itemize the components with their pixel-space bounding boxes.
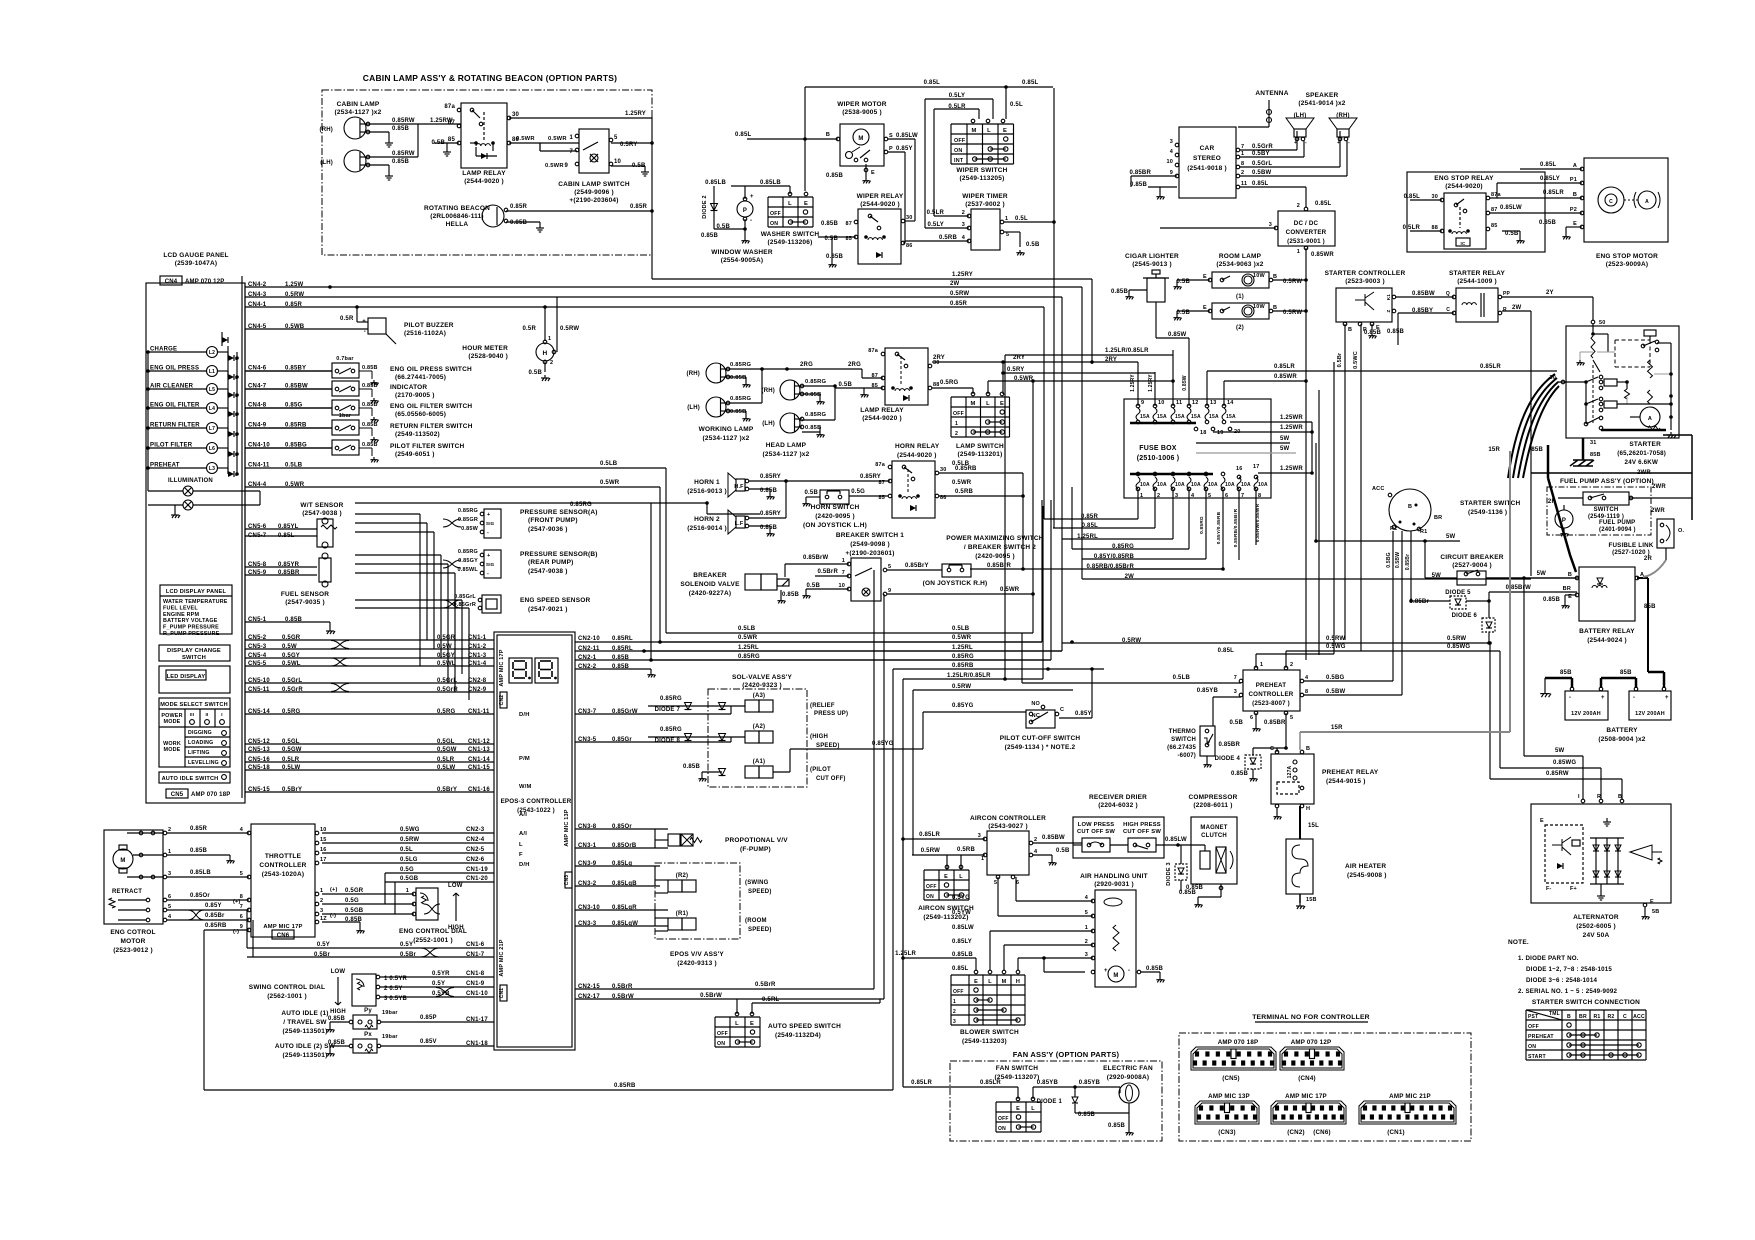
svg-text:CIGAR LIGHTER: CIGAR LIGHTER (1125, 253, 1179, 260)
fuse 10 15A (1153, 404, 1157, 408)
wire 0.85L top run (805, 86, 1053, 88)
svg-text:10: 10 (320, 827, 327, 833)
svg-text:2: 2 (320, 898, 323, 904)
svg-text:2: 2 (168, 827, 171, 833)
svg-text:10: 10 (1166, 159, 1173, 165)
svg-text:0.5LY: 0.5LY (928, 222, 944, 228)
svg-text:(2527-1020 ): (2527-1020 ) (1612, 549, 1650, 556)
charge diode (221, 332, 223, 346)
svg-text:1.25RY: 1.25RY (952, 272, 973, 278)
svg-text:5W: 5W (1555, 748, 1565, 754)
svg-text:2R: 2R (1644, 556, 1653, 562)
svg-text:AMP MIC 13P: AMP MIC 13P (1208, 1093, 1250, 1100)
fuse 4 10A (1187, 472, 1191, 476)
svg-text:(2554-9005A): (2554-9005A) (721, 257, 764, 264)
svg-text:-: - (750, 218, 752, 224)
svg-text:0.5WR: 0.5WR (952, 480, 972, 486)
svg-text:0.85B: 0.85B (392, 126, 409, 132)
svg-text:2WR: 2WR (1651, 508, 1665, 514)
svg-text:/ BREAKER SWITCH 2: / BREAKER SWITCH 2 (964, 544, 1036, 551)
svg-text:1: 1 (1140, 493, 1143, 499)
svg-text:HOUR METER: HOUR METER (462, 345, 508, 352)
svg-text:(65.05560-6005): (65.05560-6005) (395, 411, 446, 418)
svg-text:0.85LR: 0.85LR (911, 1080, 932, 1086)
svg-text:ENG SPEED SENSOR: ENG SPEED SENSOR (520, 597, 590, 604)
svg-text:P1: P1 (1570, 177, 1577, 183)
svg-text:0.5YR: 0.5YR (432, 971, 450, 977)
svg-text:0.85B: 0.85B (362, 365, 378, 371)
svg-text:0.5BY: 0.5BY (1252, 151, 1270, 157)
svg-text:Z: Z (1386, 309, 1391, 312)
svg-text:ON: ON (770, 221, 778, 227)
svg-text:1: 1 (1297, 249, 1300, 255)
svg-text:FUSIBLE LINK: FUSIBLE LINK (1608, 542, 1653, 549)
DC/DC converter 2531-9001 (1278, 211, 1335, 246)
svg-text:(2547-9021 ): (2547-9021 ) (528, 606, 568, 613)
svg-text:(2204-6032 ): (2204-6032 ) (1098, 802, 1138, 809)
svg-text:ON: ON (998, 1126, 1006, 1132)
svg-text:2: 2 (1241, 170, 1244, 176)
svg-text:HEAD LAMP: HEAD LAMP (766, 442, 807, 449)
svg-text:(2545-9008 ): (2545-9008 ) (1347, 872, 1387, 879)
wires 0.85BrR/0.5WR risers to CN2-15/17 (873, 570, 875, 989)
svg-text:1: 1 (953, 999, 956, 1005)
svg-text:1.25RL: 1.25RL (952, 645, 973, 651)
svg-text:0.85B: 0.85B (805, 392, 821, 398)
svg-text:0.85GR: 0.85GR (458, 517, 478, 523)
svg-text:10: 10 (1158, 400, 1165, 406)
svg-text:0.5WR: 0.5WR (1014, 376, 1034, 382)
svg-text:1.25RY: 1.25RY (1130, 374, 1136, 392)
svg-text:A: A (1573, 163, 1577, 169)
svg-text:0.5B: 0.5B (805, 490, 819, 496)
thick battery cable bundle to starter terminal 30 (1508, 374, 1555, 478)
svg-text:0.5Br: 0.5Br (314, 952, 330, 958)
svg-text:L1: L1 (209, 369, 215, 375)
svg-text:0.85B: 0.85B (362, 383, 378, 389)
svg-text:ELECTRIC FAN: ELECTRIC FAN (1103, 1065, 1153, 1072)
svg-text:0.5BrR: 0.5BrR (817, 569, 838, 575)
svg-text:C: C (1609, 199, 1613, 205)
svg-text:0.85B: 0.85B (730, 375, 746, 381)
svg-text:I: I (1578, 794, 1580, 800)
solenoid valve A3 relief press up (745, 700, 759, 712)
svg-text:L: L (1031, 1106, 1035, 1112)
svg-text:3: 3 (168, 871, 171, 877)
svg-text:STARTER: STARTER (1629, 441, 1661, 448)
svg-text:CONTROLLER: CONTROLLER (259, 862, 306, 869)
svg-text:0.5R: 0.5R (340, 316, 354, 322)
svg-text:DIODE 1~2, 7~8 : 2548-1015: DIODE 1~2, 7~8 : 2548-1015 (1526, 966, 1612, 973)
svg-text:24V 6.6KW: 24V 6.6KW (1625, 459, 1658, 466)
svg-text:0.85B: 0.85B (1364, 330, 1381, 336)
svg-text:0.5GL: 0.5GL (437, 739, 455, 745)
svg-text:0.5G: 0.5G (851, 489, 865, 495)
svg-text:0.85B: 0.85B (782, 592, 799, 598)
svg-text:A: A (1648, 416, 1652, 422)
wire 15R gray (1300, 731, 1510, 733)
svg-text:87a: 87a (868, 348, 879, 354)
svg-text:0.85LY: 0.85LY (1540, 176, 1560, 182)
svg-text:WIPER SWITCH: WIPER SWITCH (956, 167, 1007, 174)
svg-text:0.85WG: 0.85WG (1553, 760, 1576, 766)
svg-text:H: H (1306, 806, 1310, 812)
svg-text:HORN RELAY: HORN RELAY (895, 443, 940, 450)
svg-text:0.5G: 0.5G (400, 867, 414, 873)
svg-text:3: 3 (1175, 493, 1178, 499)
svg-text:CN1-8: CN1-8 (466, 971, 485, 977)
svg-text:(2516-9013 ): (2516-9013 ) (687, 488, 727, 495)
svg-text:(1): (1) (1236, 294, 1244, 300)
svg-text:9: 9 (564, 163, 568, 169)
svg-text:LAMP RELAY: LAMP RELAY (860, 407, 904, 414)
svg-text:PILOT FILTER SWITCH: PILOT FILTER SWITCH (390, 443, 465, 450)
svg-text:3: 3 (1269, 222, 1272, 228)
svg-text:0.85BrR: 0.85BrR (987, 563, 1012, 569)
svg-text:5W: 5W (1446, 534, 1456, 540)
svg-text:0.5LB: 0.5LB (600, 461, 618, 467)
svg-text:CN1-20: CN1-20 (466, 876, 488, 882)
svg-text:F+: F+ (1570, 886, 1577, 892)
svg-text:0.5B: 0.5B (807, 583, 821, 589)
pressure sensor B rear pump 2547-9038 (484, 550, 501, 578)
svg-text:86: 86 (906, 243, 913, 249)
lamp relay 2544-9020 (cabin) (461, 103, 507, 168)
svg-text:(2420-9323 ): (2420-9323 ) (742, 682, 782, 689)
svg-text:1.25RL: 1.25RL (738, 645, 759, 651)
svg-text:CAR: CAR (1200, 145, 1215, 152)
svg-text:MODE: MODE (164, 747, 181, 753)
svg-text:(66.27441-7005): (66.27441-7005) (395, 374, 446, 381)
svg-text:(2420-9313 ): (2420-9313 ) (677, 960, 717, 967)
svg-text:0.85B: 0.85B (826, 254, 843, 260)
svg-text:1: 1 (320, 888, 323, 894)
svg-text:0.85BR: 0.85BR (1218, 742, 1240, 748)
svg-text:10A: 10A (1175, 482, 1185, 488)
svg-text:0.5GB: 0.5GB (400, 876, 419, 882)
svg-text:CN1-12: CN1-12 (468, 739, 490, 745)
svg-text:+: + (487, 512, 490, 518)
svg-text:0.85Y: 0.85Y (1075, 711, 1092, 717)
svg-text:6: 6 (240, 914, 243, 920)
svg-text:1: 1 (168, 849, 171, 855)
svg-text:(ROOM: (ROOM (745, 918, 767, 924)
svg-text:CN1-16: CN1-16 (468, 787, 490, 793)
svg-text:FUEL LEVEL: FUEL LEVEL (163, 605, 198, 611)
svg-text:SWITCH: SWITCH (1171, 737, 1196, 743)
svg-text:127A: 127A (1287, 765, 1293, 778)
svg-text:0.85LB: 0.85LB (952, 952, 973, 958)
svg-text:B: B (1408, 504, 1412, 510)
svg-text:0.85L: 0.85L (924, 80, 940, 86)
svg-text:(2523-9009A): (2523-9009A) (1606, 261, 1649, 268)
svg-text:0.5W: 0.5W (437, 644, 452, 650)
svg-text:CN2: CN2 (499, 695, 505, 706)
svg-text:(RH): (RH) (320, 127, 333, 133)
svg-text:0.85W: 0.85W (1168, 332, 1186, 338)
svg-text:E: E (1203, 305, 1207, 311)
svg-text:0.85RW: 0.85RW (392, 151, 415, 157)
svg-text:0.5Br: 0.5Br (1337, 352, 1343, 367)
svg-text:7: 7 (1241, 144, 1244, 150)
svg-text:0.85BrY: 0.85BrY (905, 563, 929, 569)
svg-text:0.5RB: 0.5RB (957, 847, 975, 853)
lamp switch 2549-113201 (950, 397, 952, 437)
svg-text:0.5RB: 0.5RB (955, 489, 973, 495)
svg-text:0.85WR: 0.85WR (1311, 252, 1334, 258)
svg-text:(2549-1134 ) * NOTE.2: (2549-1134 ) * NOTE.2 (1005, 744, 1076, 751)
svg-text:ON: ON (926, 894, 934, 900)
svg-text:(2523-9003 ): (2523-9003 ) (1345, 278, 1385, 285)
svg-text:0.5RG: 0.5RG (437, 709, 455, 715)
seven segment display (509, 658, 532, 683)
svg-text:14: 14 (1227, 400, 1234, 406)
svg-text:85: 85 (448, 137, 456, 143)
svg-text:(65,26201-7058): (65,26201-7058) (1617, 450, 1666, 457)
svg-text:0.5GR: 0.5GR (345, 888, 364, 894)
svg-text:10A: 10A (1241, 482, 1251, 488)
svg-text:(2534-9063 )x2: (2534-9063 )x2 (1216, 261, 1263, 268)
svg-text:0.5BrY: 0.5BrY (437, 787, 457, 793)
svg-text:CN1: CN1 (499, 988, 505, 999)
svg-text:0.85RW: 0.85RW (392, 118, 415, 124)
svg-text:HELLA: HELLA (446, 221, 469, 228)
svg-text:FAN SWITCH: FAN SWITCH (996, 1065, 1039, 1072)
svg-text:0.5WG: 0.5WG (1326, 644, 1346, 650)
svg-text:CN2-6: CN2-6 (466, 857, 485, 863)
svg-text:0.5WG: 0.5WG (400, 827, 420, 833)
svg-text:0.85RY: 0.85RY (760, 511, 781, 517)
svg-text:(2543-1022 ): (2543-1022 ) (517, 807, 555, 814)
svg-text:0.5BG: 0.5BG (1386, 552, 1392, 567)
preheat relay 2544-9015 (1271, 754, 1314, 804)
svg-text:10: 10 (838, 583, 845, 589)
svg-text:BATTERY VOLTAGE: BATTERY VOLTAGE (163, 618, 218, 624)
svg-text:LOW PRESS: LOW PRESS (1078, 822, 1115, 828)
svg-text:LCD GAUGE PANEL: LCD GAUGE PANEL (163, 252, 228, 259)
svg-text:HORN 1: HORN 1 (694, 479, 720, 486)
svg-text:0.85B: 0.85B (362, 402, 378, 408)
svg-text:0.85B: 0.85B (328, 1016, 345, 1022)
svg-text:Py: Py (364, 1008, 372, 1014)
svg-text:0.85W: 0.85W (461, 526, 479, 532)
svg-text:(2541-9014 )x2: (2541-9014 )x2 (1298, 100, 1345, 107)
svg-text:2RG: 2RG (800, 362, 813, 368)
svg-text:(R2): (R2) (676, 873, 688, 879)
svg-text:CN1-14: CN1-14 (468, 757, 490, 763)
svg-text:E: E (1540, 818, 1544, 824)
svg-text:A: A (1645, 199, 1649, 205)
svg-text:ON: ON (1528, 1044, 1536, 1050)
svg-text:RETURN FILTER SWITCH: RETURN FILTER SWITCH (390, 423, 473, 430)
svg-text:0.85B: 0.85B (510, 220, 527, 226)
air heater 2545-9008 (1286, 839, 1313, 894)
svg-text:R_PUMP PRESSURE: R_PUMP PRESSURE (163, 631, 220, 637)
svg-text:E: E (871, 170, 875, 176)
svg-text:3: 3 (320, 908, 323, 914)
mid bus corner wires (666, 632, 1033, 634)
svg-text:(RH): (RH) (687, 371, 700, 377)
svg-text:3: 3 (953, 1019, 956, 1025)
svg-text:(2549-113207): (2549-113207) (995, 1074, 1040, 1081)
svg-text:15R: 15R (1488, 447, 1500, 453)
svg-text:(2539-1047A): (2539-1047A) (175, 260, 218, 267)
preheat controller 2523-8007 (1243, 670, 1300, 711)
svg-text:(2170-9005 ): (2170-9005 ) (395, 392, 435, 399)
svg-text:(ON JOYSTICK L.H): (ON JOYSTICK L.H) (803, 522, 867, 529)
svg-text:0.5WR: 0.5WR (1000, 587, 1020, 593)
svg-text:0.5B: 0.5B (1505, 231, 1519, 237)
svg-text:L: L (986, 401, 990, 407)
svg-text:LOW: LOW (331, 969, 346, 975)
svg-text:0.85R: 0.85R (510, 204, 527, 210)
svg-text:(2920-9008A): (2920-9008A) (1107, 1074, 1150, 1081)
svg-text:5B: 5B (1652, 909, 1659, 915)
svg-text:5W: 5W (1537, 571, 1547, 577)
svg-text:0.85BW: 0.85BW (1042, 835, 1065, 841)
svg-text:E: E (1573, 221, 1577, 227)
auto speed switch 2549-1132D4 (714, 1017, 716, 1047)
svg-text:OFF: OFF (998, 1116, 1009, 1122)
svg-text:15A: 15A (1175, 414, 1185, 420)
svg-text:0.5RY: 0.5RY (1007, 367, 1024, 373)
svg-text:0.5BW: 0.5BW (1395, 552, 1401, 568)
svg-text:CN3: CN3 (564, 875, 570, 886)
svg-text:(REAR PUMP): (REAR PUMP) (528, 559, 574, 566)
connector AMP MIC 21P CN1 (1359, 1101, 1456, 1124)
svg-text:17: 17 (1253, 464, 1260, 470)
svg-text:ENG COTROL: ENG COTROL (110, 929, 155, 936)
svg-text:ON: ON (717, 1041, 725, 1047)
svg-text:1.25LR: 1.25LR (895, 951, 916, 957)
svg-text:30: 30 (512, 112, 520, 118)
svg-text:0.5WR: 0.5WR (545, 163, 564, 169)
svg-text:(2549-113502): (2549-113502) (395, 431, 440, 438)
svg-text:0.85RL: 0.85RL (612, 636, 633, 642)
svg-text:D/H: D/H (519, 862, 530, 868)
svg-text:0.85B: 0.85B (392, 159, 409, 165)
svg-text:0.85YG: 0.85YG (872, 741, 894, 747)
svg-text:12V 200AH: 12V 200AH (1635, 711, 1665, 717)
svg-text:(2549-9096 ): (2549-9096 ) (574, 189, 614, 196)
LCD display panel box (160, 585, 232, 634)
svg-text:L: L (735, 1021, 739, 1027)
svg-text:9: 9 (1170, 170, 1173, 176)
svg-text:(LH): (LH) (320, 160, 333, 166)
svg-text:0.7bar: 0.7bar (336, 356, 354, 362)
svg-text:WIPER RELAY: WIPER RELAY (857, 193, 904, 200)
svg-text:0.5LR: 0.5LR (1403, 225, 1421, 231)
svg-text:BR: BR (1579, 1014, 1587, 1020)
svg-text:B: B (826, 132, 830, 138)
svg-text:0.85WR: 0.85WR (1274, 374, 1297, 380)
electric fan 2920-9008A (1119, 1083, 1139, 1103)
svg-text:0.5GrR: 0.5GrR (1252, 144, 1273, 150)
svg-text:(+): (+) (330, 887, 337, 893)
svg-text:(2RL006846-111): (2RL006846-111) (430, 213, 484, 220)
svg-text:(2523-8007 ): (2523-8007 ) (1252, 700, 1290, 707)
svg-text:0.85Br: 0.85Br (1405, 554, 1411, 571)
svg-text:NO: NO (1031, 701, 1040, 707)
svg-text:6: 6 (1225, 493, 1228, 499)
fuse 2 10A (1153, 472, 1157, 476)
svg-text:5: 5 (614, 135, 618, 141)
svg-text:START: START (1528, 1054, 1547, 1060)
svg-text:(2552-1001 ): (2552-1001 ) (413, 937, 453, 944)
svg-text:CABIN LAMP SWITCH: CABIN LAMP SWITCH (558, 181, 630, 188)
svg-text:2: 2 (1297, 203, 1300, 209)
svg-text:(2544-9024 ): (2544-9024 ) (1587, 637, 1627, 644)
svg-text:DIODE 3: DIODE 3 (1166, 862, 1172, 885)
svg-text:0.85L: 0.85L (1252, 181, 1268, 187)
svg-text:(CN3): (CN3) (1218, 1129, 1236, 1136)
svg-text:THROTTLE: THROTTLE (265, 853, 302, 860)
svg-text:0.5GrL: 0.5GrL (1252, 161, 1272, 167)
svg-text:0.85LB: 0.85LB (190, 870, 211, 876)
svg-text:0.85BW: 0.85BW (1412, 291, 1435, 297)
svg-text:E: E (1203, 274, 1207, 280)
svg-text:10: 10 (614, 159, 622, 165)
svg-text:DIODE 5: DIODE 5 (1445, 590, 1471, 596)
svg-text:0.85LB: 0.85LB (705, 180, 726, 186)
svg-text:0.85B: 0.85B (1543, 597, 1560, 603)
svg-text:B: B (1568, 572, 1572, 578)
svg-text:0.85Br: 0.85Br (205, 913, 225, 919)
svg-text:0.5RW: 0.5RW (921, 848, 940, 854)
svg-text:0.85RG: 0.85RG (805, 412, 826, 418)
svg-text:0.5R: 0.5R (523, 326, 537, 332)
svg-text:III: III (190, 712, 194, 717)
svg-text:TERMINAL NO FOR CONTROLLER: TERMINAL NO FOR CONTROLLER (1252, 1014, 1370, 1021)
svg-text:+: + (1665, 695, 1669, 701)
battery relay 2544-9024 (1579, 567, 1635, 621)
svg-text:1. DIODE PART NO.: 1. DIODE PART NO. (1518, 955, 1579, 962)
svg-text:(CN2): (CN2) (1287, 1129, 1305, 1136)
svg-text:MOTOR: MOTOR (120, 938, 145, 945)
svg-text:3: 3 (1170, 139, 1173, 145)
svg-text:85: 85 (1491, 223, 1498, 229)
svg-text:1: 1 (981, 856, 984, 862)
svg-text:(LH): (LH) (762, 421, 775, 427)
svg-text:1: 1 (1005, 216, 1008, 222)
svg-text:17: 17 (320, 857, 327, 863)
svg-text:87: 87 (845, 221, 852, 227)
svg-text:FUEL PUMP ASS'Y (OPTION): FUEL PUMP ASS'Y (OPTION) (1560, 478, 1654, 485)
svg-text:0.85RB: 0.85RB (952, 663, 974, 669)
battery 12V 200AH x2 2508-9004 (1565, 691, 1608, 720)
svg-text:-6007): -6007) (1177, 753, 1196, 759)
wire 0.85RB long bottom run (204, 1089, 893, 1091)
svg-text:12: 12 (1192, 400, 1199, 406)
svg-text:0.85B: 0.85B (362, 442, 378, 448)
svg-text:0.5BW: 0.5BW (1252, 170, 1271, 176)
svg-text:PP: PP (1503, 291, 1511, 297)
svg-text:(2547-9036 ): (2547-9036 ) (528, 526, 568, 533)
svg-text:(CN5): (CN5) (1222, 1075, 1240, 1082)
svg-text:(A2): (A2) (753, 724, 765, 730)
svg-text:B: B (1273, 305, 1277, 311)
wire 1.25RY riser x652 (651, 117, 653, 279)
svg-text:0.85B: 0.85B (1539, 220, 1556, 226)
svg-text:-: - (1569, 695, 1571, 701)
svg-text:DIODE 2: DIODE 2 (702, 195, 708, 218)
svg-text:+: + (1104, 968, 1108, 974)
svg-text:M: M (120, 858, 125, 864)
svg-text:2: 2 (955, 431, 958, 437)
svg-text:BATTERY RELAY: BATTERY RELAY (1579, 628, 1635, 635)
svg-text:CN1-6: CN1-6 (466, 942, 485, 948)
svg-text:PRESSURE SENSOR(A): PRESSURE SENSOR(A) (520, 509, 598, 516)
